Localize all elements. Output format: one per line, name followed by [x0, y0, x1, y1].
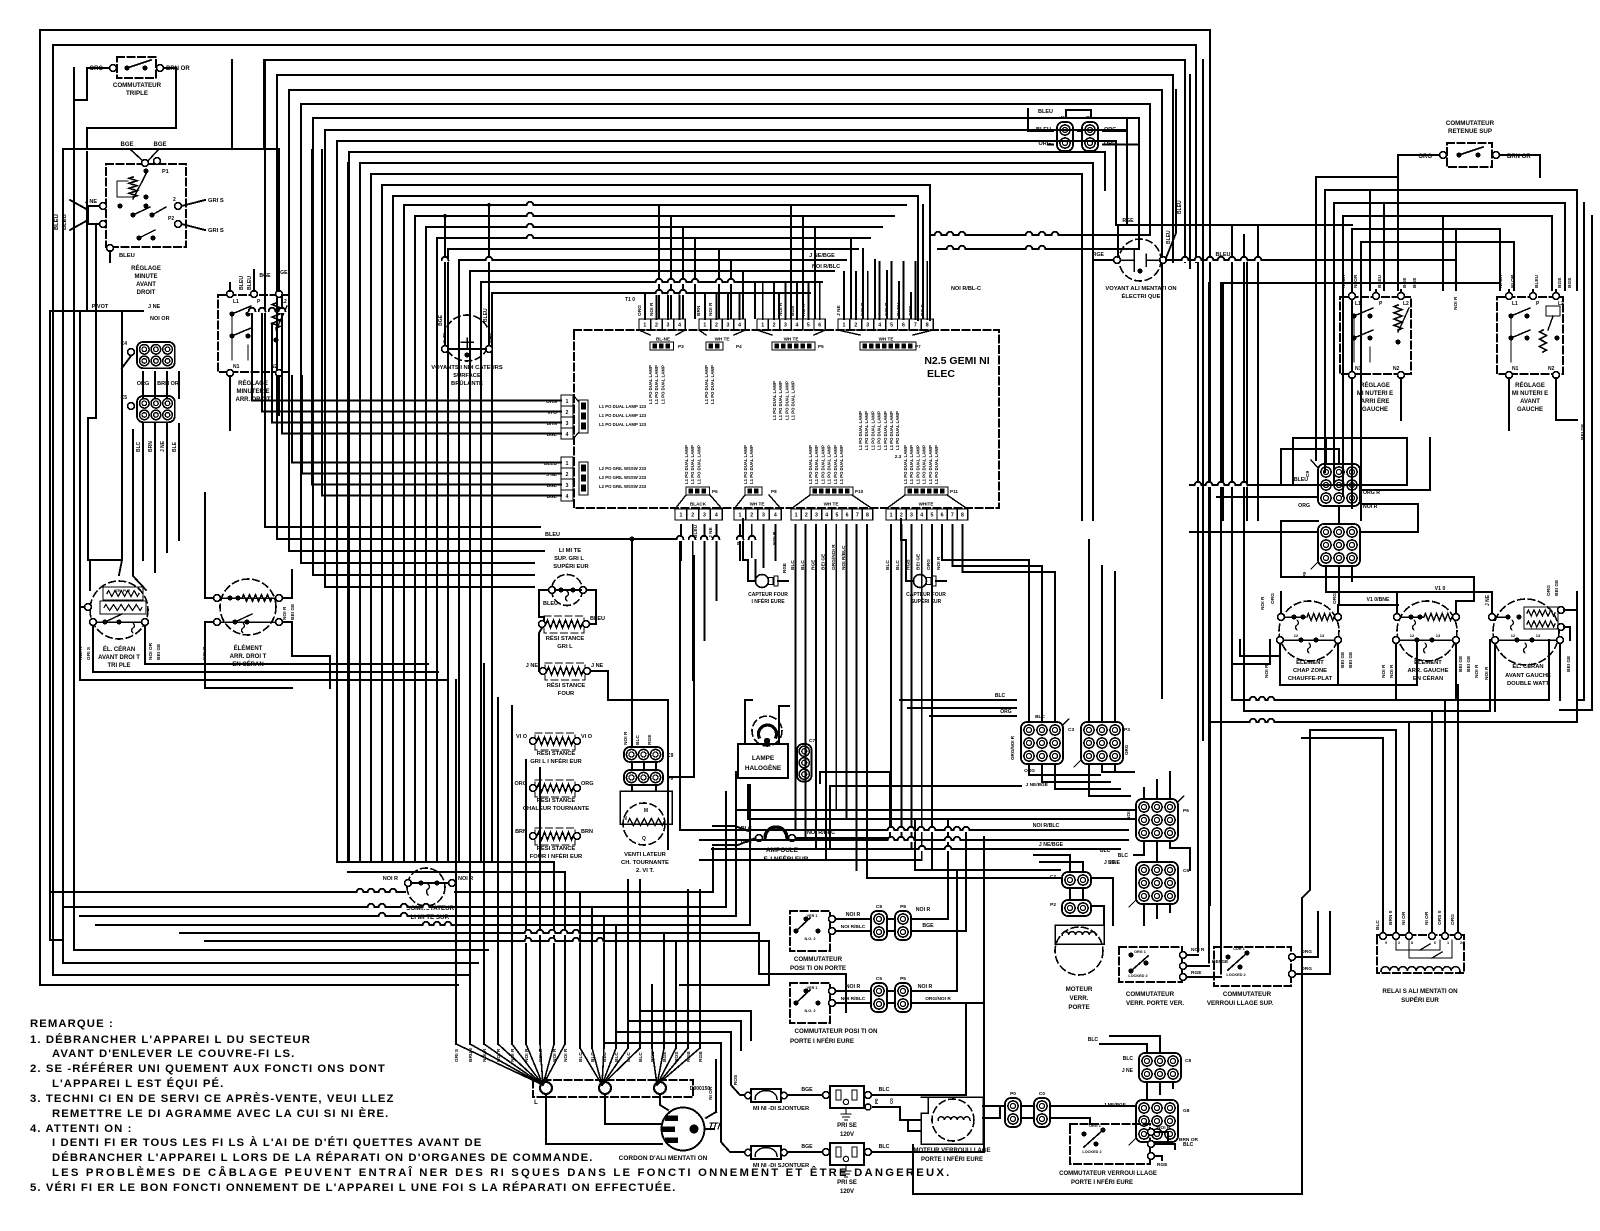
svg-text:5: 5	[890, 323, 893, 329]
wire left lower rails to center	[50, 939, 63, 941]
svg-text:P3: P3	[1124, 727, 1130, 733]
svg-text:L1 PO DUAL LAMP: L1 PO DUAL LAMP	[915, 445, 920, 484]
wire mid-left rails to control box left strips	[252, 400, 534, 402]
wire element1 leads	[80, 311, 85, 607]
svg-text:ARR. GAUCHE: ARR. GAUCHE	[1408, 668, 1449, 674]
svg-text:NI OR: NI OR	[708, 1086, 714, 1100]
relay reglage minuterie avant droit	[106, 164, 186, 247]
conn C2 2-pin horizontal	[1062, 872, 1091, 888]
conn P5 2-pin	[895, 983, 911, 1012]
svg-text:9: 9	[1385, 941, 1387, 945]
lamp ampoule four inferieur	[765, 827, 787, 838]
relay reglage minuterie arriere droit	[218, 295, 289, 372]
svg-text:ORG: ORG	[1104, 127, 1117, 133]
svg-text:BLEU: BLEU	[239, 276, 245, 290]
connector strip P8 bottom 4-pin	[734, 509, 746, 520]
wire limite leads	[539, 590, 549, 620]
wire staircase rails center-left	[360, 163, 1093, 520]
svg-text:NOI: NOI	[1126, 811, 1132, 820]
svg-text:ELEC: ELEC	[927, 368, 955, 380]
svg-text:L1 PO DUAL LAMP: L1 PO DUAL LAMP	[654, 365, 659, 404]
svg-text:6: 6	[902, 323, 905, 329]
wire voyant alim loop RGE	[1118, 225, 1162, 257]
wire conn C9/P9 links	[631, 762, 633, 770]
svg-text:BLC: BLC	[995, 693, 1006, 699]
wire BLEU rail	[537, 538, 680, 540]
svg-text:2: 2	[900, 513, 903, 519]
svg-text:G8: G8	[1183, 1108, 1190, 1114]
svg-text:NOI R/BL-C: NOI R/BL-C	[951, 286, 981, 292]
svg-text:BRN OR: BRN OR	[1179, 1137, 1198, 1143]
svg-text:VERROUI LLAGE SUP.: VERROUI LLAGE SUP.	[1207, 1000, 1274, 1007]
svg-text:WHITE: WHITE	[919, 502, 934, 507]
svg-text:NOI OR: NOI OR	[150, 316, 170, 322]
svg-text:P11: P11	[950, 489, 958, 494]
svg-text:WH TE: WH TE	[879, 337, 894, 342]
wire relay1 left links	[88, 206, 100, 224]
svg-text:RÉSI STANCE: RÉSI STANCE	[537, 749, 576, 757]
svg-text:RÉGLAGE: RÉGLAGE	[131, 264, 161, 272]
wire ventilateur leads	[668, 556, 694, 777]
svg-text:BLEU: BLEU	[896, 302, 902, 316]
svg-text:L: L	[534, 1100, 538, 1106]
svg-text:P10: P10	[855, 489, 864, 494]
conn lampe 3-pin vertical	[797, 744, 812, 782]
svg-text:BLEU: BLEU	[1377, 274, 1383, 288]
wire top bundle rails	[265, 60, 1185, 262]
svg-text:2: 2	[691, 513, 694, 519]
wire prise2 right BLC	[872, 1003, 985, 1152]
svg-text:P4: P4	[736, 344, 742, 349]
svg-text:L1 PO DUAL LAMP: L1 PO DUAL LAMP	[690, 445, 695, 484]
wire comm porte inf right	[912, 940, 957, 991]
svg-text:3: 3	[566, 421, 569, 427]
svg-text:BLEU: BLEU	[590, 616, 605, 622]
svg-text:P8: P8	[900, 904, 906, 910]
wire capteur leads	[743, 519, 756, 581]
svg-text:4: 4	[795, 323, 798, 329]
svg-text:BLEU: BLEU	[1166, 230, 1172, 244]
svg-text:BLC: BLC	[879, 1144, 890, 1150]
wire rail pivot	[50, 310, 143, 312]
relay1 bottom terminal	[107, 245, 114, 252]
svg-text:NOI R: NOI R	[1191, 947, 1205, 953]
svg-text:BLC: BLC	[895, 560, 901, 570]
svg-text:MI NI -DI SJONTUER: MI NI -DI SJONTUER	[753, 1106, 810, 1112]
wire element c1 leads	[1280, 592, 1282, 614]
wire right-side drop bundle	[1202, 60, 1204, 740]
conn C6 3x3 right	[1136, 862, 1178, 904]
svg-text:SUPÉRI EUR: SUPÉRI EUR	[911, 597, 942, 605]
svg-text:NOI R: NOI R	[282, 606, 288, 620]
wire element c2 leads	[1397, 592, 1492, 614]
wire top bundle left drops	[265, 60, 540, 527]
svg-text:ORG: ORG	[1000, 709, 1012, 715]
svg-text:2: 2	[1398, 941, 1400, 945]
wire breaker1 leads	[731, 1032, 744, 1095]
wire prise1 right BLC	[872, 1003, 967, 1095]
wire relay-avg tops	[1508, 290, 1510, 292]
conn P9 right 3x3	[1318, 524, 1360, 566]
svg-text:P0: P0	[874, 1098, 879, 1104]
svg-text:4: 4	[878, 323, 881, 329]
svg-text:M: M	[644, 808, 648, 814]
conn G8 3x3 bottom right	[1136, 1100, 1178, 1142]
svg-text:L1 PO DUAL LAMP: L1 PO DUAL LAMP	[743, 445, 748, 484]
svg-text:WH TE: WH TE	[750, 502, 765, 507]
svg-text:BRN 0: BRN 0	[1388, 910, 1394, 925]
svg-text:J NE: J NE	[1104, 860, 1116, 866]
svg-text:N2.5 GEMI NI: N2.5 GEMI NI	[924, 355, 989, 367]
relay reglage minuterie avant gauche	[1497, 297, 1563, 374]
svg-text:BLEU: BLEU	[247, 276, 253, 290]
wire ampoule left leads	[713, 838, 756, 845]
wire commutateur triple right	[87, 68, 176, 149]
svg-text:L2 PO GRIL WSSW 233: L2 PO GRIL WSSW 233	[599, 475, 647, 480]
wire element c3 leads	[1491, 592, 1493, 614]
wire element right link rails	[1240, 655, 1278, 657]
svg-text:BGE: BGE	[120, 142, 133, 148]
wire conn C6 bottom leads	[1143, 904, 1145, 925]
svg-text:L1 PO DUAL LAMP: L1 PO DUAL LAMP	[903, 445, 908, 484]
svg-text:BLC: BLC	[1035, 714, 1045, 720]
svg-text:BL-NE: BL-NE	[656, 337, 670, 342]
wire ampoule up-left link	[820, 771, 890, 773]
svg-text:L1 PO DUAL LAMP: L1 PO DUAL LAMP	[870, 411, 875, 450]
svg-text:I NFÉRI EURE: I NFÉRI EURE	[751, 597, 785, 605]
conn C0 2-pin	[1034, 1098, 1050, 1127]
svg-text:VOYANT ALI MENTATI ON: VOYANT ALI MENTATI ON	[1105, 286, 1176, 292]
svg-text:P7: P7	[915, 344, 921, 349]
wire comm porte verticals up	[947, 820, 949, 911]
svg-text:BLEU: BLEU	[1294, 477, 1308, 483]
svg-text:BEI GE: BEI GE	[1566, 655, 1572, 672]
wire right-edge tall verticals	[1583, 203, 1585, 700]
svg-text:6: 6	[818, 323, 821, 329]
wire rails to mid connectors	[900, 699, 1016, 701]
svg-text:13: 13	[1320, 633, 1325, 638]
lamp lampe halogene	[752, 716, 782, 746]
outlet prise 120V upper	[830, 1086, 864, 1108]
svg-text:PRI SE: PRI SE	[837, 1123, 857, 1129]
connector strip P11 bottom 8-pin	[886, 509, 896, 520]
svg-text:BEI GE: BEI GE	[156, 643, 162, 660]
svg-text:NOI R: NOI R	[552, 1048, 558, 1062]
svg-text:SURFACE: SURFACE	[453, 373, 481, 379]
svg-text:L2 PO GRIL WSSW 233: L2 PO GRIL WSSW 233	[599, 466, 647, 471]
svg-text:MOTEUR VERROUI LLAGE: MOTEUR VERROUI LLAGE	[913, 1148, 990, 1154]
wire relay-avg bottoms	[1508, 378, 1510, 430]
wire four right loop	[591, 671, 669, 700]
switch commutateur verrouillage porte inferieure	[1070, 1124, 1150, 1164]
svg-text:MI NUTERI E: MI NUTERI E	[1357, 391, 1393, 397]
wire BGE fan to P1	[131, 150, 144, 162]
svg-text:L1 PO DUAL LAMP: L1 PO DUAL LAMP	[660, 365, 665, 404]
conn bleu pair N1	[1057, 122, 1073, 151]
svg-text:12: 12	[1410, 633, 1415, 638]
svg-text:BLEU: BLEU	[1534, 274, 1540, 288]
svg-text:BEI GE: BEI GE	[1348, 651, 1354, 668]
conn P9 3-pin	[624, 770, 663, 785]
svg-text:12: 12	[1511, 633, 1516, 638]
wire funnel right group verticals	[651, 985, 653, 1048]
wire rail BGE	[63, 148, 279, 150]
svg-text:BLC: BLC	[885, 560, 891, 570]
svg-text:NI OR: NI OR	[1401, 911, 1407, 925]
svg-text:BLC: BLC	[578, 1052, 584, 1062]
svg-text:NI OR: NI OR	[1498, 274, 1504, 288]
svg-text:TRI PLE: TRI PLE	[107, 663, 130, 669]
svg-text:120V: 120V	[840, 1189, 854, 1195]
wire misc center links	[667, 700, 669, 849]
svg-text:P1: P1	[162, 169, 169, 175]
svg-text:C7: C7	[809, 738, 815, 744]
svg-text:N1: N1	[233, 364, 240, 370]
svg-text:RGB: RGB	[686, 1051, 692, 1062]
conn mid C3 3x3	[1021, 722, 1063, 764]
svg-text:COMMUTATEUR: COMMUTATEUR	[1126, 991, 1175, 998]
wire P6 P8 pin verticals down	[680, 525, 682, 560]
connector strip P4 top 4-pin	[699, 319, 711, 330]
svg-text:L1 PO DUAL LAMP: L1 PO DUAL LAMP	[696, 445, 701, 484]
svg-text:4: 4	[774, 513, 777, 519]
svg-text:COMMUTATEUR POSI TI ON: COMMUTATEUR POSI TI ON	[795, 1028, 878, 1035]
svg-text:13: 13	[1436, 633, 1441, 638]
svg-text:LOCKED 2: LOCKED 2	[1082, 1150, 1101, 1154]
fan ventilateur ch tournante	[623, 803, 665, 845]
terminal G	[654, 1082, 666, 1094]
svg-text:L1 PO DUAL LAMP: L1 PO DUAL LAMP	[648, 365, 653, 404]
svg-text:PORTE I NFÉRI EURE: PORTE I NFÉRI EURE	[790, 1037, 854, 1045]
svg-text:BRN: BRN	[696, 305, 702, 316]
svg-text:PORTE I NFÉRI EURE: PORTE I NFÉRI EURE	[1071, 1178, 1133, 1186]
svg-text:BEI GE: BEI GE	[916, 553, 922, 570]
svg-text:LOCKED 2: LOCKED 2	[1226, 973, 1245, 977]
svg-text:F. I NFÉRI EUR: F. I NFÉRI EUR	[764, 854, 809, 863]
switch commutateur position porte	[790, 911, 830, 951]
connector strip P2 left 4-pin vertical	[561, 395, 573, 406]
svg-text:BRN: BRN	[148, 441, 154, 452]
svg-text:ORS: ORS	[908, 305, 914, 316]
wire conn verticals down	[142, 372, 144, 398]
svg-text:PORTE I NFÉRI EURE: PORTE I NFÉRI EURE	[921, 1155, 983, 1163]
wire outer loop 3 left	[63, 150, 478, 963]
svg-text:C2: C2	[1050, 874, 1056, 880]
svg-text:P5: P5	[900, 976, 906, 982]
svg-text:NOI R/BLC: NOI R/BLC	[1033, 823, 1060, 829]
svg-text:ÉL. CÉRAN: ÉL. CÉRAN	[103, 645, 135, 653]
conn P2 2-pin horizontal	[1062, 900, 1091, 916]
svg-text:1: 1	[795, 513, 798, 519]
svg-text:ORG/NOI R: ORG/NOI R	[1010, 735, 1015, 760]
svg-text:FOUR I NFÉRI EUR: FOUR I NFÉRI EUR	[530, 852, 583, 860]
svg-text:BLC: BLC	[879, 1087, 890, 1093]
svg-text:BLC: BLC	[638, 1052, 644, 1062]
svg-text:AVANT: AVANT	[1520, 399, 1540, 405]
svg-text:P6: P6	[1183, 808, 1189, 814]
switch commutateur triple	[117, 57, 156, 78]
wire NI OR vertical	[715, 1060, 717, 1112]
svg-text:NOI R: NOI R	[524, 1048, 530, 1062]
svg-text:VI O: VI O	[516, 734, 528, 740]
svg-text:Q: Q	[642, 836, 646, 842]
svg-text:NI OR: NI OR	[1424, 911, 1430, 925]
svg-text:BLC: BLC	[626, 1052, 632, 1062]
wire relais pins up	[1382, 738, 1384, 932]
wire element2 leads	[205, 493, 214, 598]
conn P8 2-pin	[895, 911, 911, 940]
svg-text:GRI S: GRI S	[208, 198, 224, 204]
wire bleu conn leads	[1028, 109, 1053, 131]
svg-text:BLACK: BLACK	[690, 502, 707, 507]
svg-text:C0: C0	[889, 1098, 894, 1104]
wire outer loop 1	[40, 30, 1210, 985]
svg-text:BRN OR: BRN OR	[166, 66, 190, 72]
svg-text:COMMUTATEUR: COMMUTATEUR	[113, 82, 162, 89]
resistor four	[545, 663, 585, 680]
wire left verticals x87	[86, 152, 88, 311]
svg-text:1: 1	[566, 399, 569, 405]
svg-text:C6: C6	[1183, 868, 1189, 874]
svg-text:L1 PO DUAL LAMP: L1 PO DUAL LAMP	[778, 381, 783, 420]
svg-text:RÉSI STANCE: RÉSI STANCE	[537, 844, 576, 852]
svg-text:7: 7	[951, 513, 954, 519]
conn C5 2-pin	[871, 983, 887, 1012]
svg-text:COMMUTATEUR: COMMUTATEUR	[1446, 120, 1495, 127]
svg-text:ORG: ORG	[581, 781, 594, 787]
svg-text:L1 PO DUAL LAMP: L1 PO DUAL LAMP	[784, 381, 789, 420]
wire right staircase left drops	[1315, 177, 1317, 460]
svg-text:BLC: BLC	[1088, 1037, 1099, 1043]
svg-text:CUR 1: CUR 1	[1233, 947, 1244, 951]
svg-text:ORG: ORG	[1024, 768, 1035, 774]
svg-text:RGE: RGE	[1122, 218, 1134, 224]
svg-text:BLC: BLC	[614, 1052, 620, 1062]
connector strip P6 bottom 4-pin	[675, 509, 687, 520]
wire right rails voyant zone	[930, 234, 1150, 236]
svg-text:LOCKED 2: LOCKED 2	[1128, 974, 1147, 978]
wire conn C9 leads	[1325, 440, 1327, 464]
svg-text:SUP. GRI L: SUP. GRI L	[554, 556, 584, 562]
svg-text:C0: C0	[1039, 1091, 1045, 1097]
svg-text:ÉL. CÉRAN: ÉL. CÉRAN	[1512, 662, 1543, 670]
svg-text:NOI R: NOI R	[623, 731, 629, 745]
svg-text:J NE: J NE	[148, 304, 161, 310]
svg-text:RELAI S ALI MENTATI ON: RELAI S ALI MENTATI ON	[1382, 988, 1458, 995]
svg-text:BLC: BLC	[1375, 920, 1381, 930]
control module N2.5 GEMINI ELEC dashed box	[574, 330, 999, 508]
svg-text:AVANT D'ENLEVER LE COUVRE-FI L: AVANT D'ENLEVER LE COUVRE-FI LS.	[52, 1048, 295, 1060]
wire J NE/BGE rail to conn C3	[830, 786, 1021, 849]
svg-text:NOI R: NOI R	[846, 912, 861, 918]
svg-text:BGE: BGE	[438, 314, 444, 326]
svg-text:BLEU: BLEU	[1177, 200, 1183, 214]
svg-text:C8: C8	[876, 904, 882, 910]
svg-text:EN CÉRAN: EN CÉRAN	[1413, 674, 1443, 682]
svg-text:BRÛLANTE: BRÛLANTE	[451, 380, 483, 387]
wire comm position porte leads	[836, 918, 872, 920]
svg-text:ORG: ORG	[1546, 585, 1552, 596]
svg-text:2. VI T.: 2. VI T.	[636, 868, 654, 874]
wire right bundle verticals down	[1197, 260, 1199, 952]
svg-text:NOI R: NOI R	[482, 1048, 488, 1062]
svg-text:1: 1	[738, 513, 741, 519]
svg-text:L1 PO DUAL LAMP: L1 PO DUAL LAMP	[833, 445, 838, 484]
svg-text:L1 PO DUAL LAMP: L1 PO DUAL LAMP	[858, 411, 863, 450]
svg-text:DÉBRANCHER L'APPAREI L LORS DE: DÉBRANCHER L'APPAREI L LORS DE LA RÉPARA…	[52, 1151, 593, 1164]
svg-text:ORG: ORG	[1332, 593, 1338, 604]
svg-text:4. ATTENTI ON :: 4. ATTENTI ON :	[30, 1123, 132, 1135]
svg-text:LES PROBLÈMES DE CÂBLAGE PEUVE: LES PROBLÈMES DE CÂBLAGE PEUVENT ENTRAÎ …	[52, 1166, 951, 1179]
wire center rails bundle	[50, 891, 405, 893]
svg-text:NOI R: NOI R	[538, 1048, 544, 1062]
svg-text:MINUTE: MINUTE	[135, 274, 158, 280]
svg-text:RÉSI STANCE: RÉSI STANCE	[546, 634, 585, 642]
wire relay2 bottoms	[229, 376, 231, 430]
svg-text:RGE: RGE	[1093, 252, 1105, 258]
element arr droit en ceran	[220, 579, 276, 635]
svg-text:3: 3	[762, 513, 765, 519]
svg-text:2: 2	[715, 323, 718, 329]
svg-text:L2: L2	[1403, 301, 1409, 307]
svg-text:P6: P6	[712, 489, 718, 494]
svg-text:NOI R: NOI R	[778, 302, 784, 316]
svg-text:4: 4	[715, 513, 718, 519]
wire relay-ag tops	[1351, 290, 1353, 292]
svg-text:I DENTI FI ER TOUS LES FI LS À: I DENTI FI ER TOUS LES FI LS À L'AI DE D…	[52, 1136, 482, 1149]
svg-text:NOI R: NOI R	[1264, 664, 1270, 678]
motor moteur verr porte	[1055, 925, 1104, 944]
svg-text:2: 2	[750, 513, 753, 519]
svg-text:5: 5	[835, 513, 838, 519]
wire moteur inf links	[983, 1105, 1005, 1107]
wire right mid verticals	[1369, 190, 1371, 290]
svg-text:SUPÉRI EUR: SUPÉRI EUR	[1401, 996, 1439, 1004]
svg-text:BG E: BG E	[920, 303, 926, 316]
svg-text:BEI GE: BEI GE	[1340, 651, 1346, 668]
svg-text:1. DÉBRANCHER L'APPAREI L DU: 1. DÉBRANCHER L'APPAREI L DU SECTEUR	[30, 1033, 311, 1046]
svg-text:5. VÉRI FI ER LE BON FONCTI O: 5. VÉRI FI ER LE BON FONCTI ONNEMENT DE …	[30, 1181, 676, 1194]
svg-text:VENTI LATEUR: VENTI LATEUR	[624, 852, 667, 858]
wire lampe leads up	[744, 700, 746, 744]
relay relais alimentation superieur	[1377, 935, 1464, 973]
connector strip P10 bottom 8-pin	[791, 509, 801, 520]
svg-text:NOI R: NOI R	[563, 1048, 569, 1062]
svg-text:6: 6	[941, 513, 944, 519]
svg-text:VOYANTS I NDI CATEURS: VOYANTS I NDI CATEURS	[431, 365, 503, 371]
element ceran avant gauche double watt	[1493, 599, 1559, 665]
conn C9 3-pin	[624, 747, 663, 762]
svg-text:NOI R: NOI R	[1157, 1125, 1171, 1131]
svg-text:BLEU: BLEU	[119, 253, 135, 259]
wire right staircase rails	[1316, 176, 1398, 178]
resistor gril inferieur	[535, 733, 575, 750]
resistor gril	[544, 616, 584, 633]
svg-text:2: 2	[655, 323, 658, 329]
conn bleu pair P0	[1082, 122, 1098, 151]
svg-text:NOI R: NOI R	[78, 646, 84, 660]
svg-text:RGB: RGB	[698, 1051, 704, 1062]
terminal L	[540, 1082, 552, 1094]
svg-text:4: 4	[920, 513, 923, 519]
svg-text:BLC: BLC	[1123, 1056, 1134, 1062]
svg-text:L1 PO DUAL LAMP: L1 PO DUAL LAMP	[749, 445, 754, 484]
svg-text:BGE: BGE	[790, 305, 796, 316]
svg-text:GRI L I NFÉRI EUR: GRI L I NFÉRI EUR	[530, 757, 582, 765]
switch commutateur position porte inferieure	[790, 983, 830, 1023]
svg-text:5: 5	[930, 513, 933, 519]
svg-text:ORG: ORG	[89, 66, 103, 72]
